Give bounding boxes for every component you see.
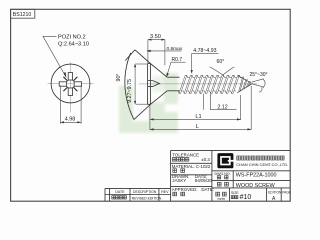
pozidriv recess bottom wing	[68, 88, 72, 95]
dim L dimension line	[150, 128, 251, 130]
company chinese name	[237, 156, 284, 160]
svg-text:BS1210: BS1210	[13, 12, 32, 18]
side view axis centerline	[139, 83, 258, 85]
svg-text:DATE: DATE	[115, 190, 125, 194]
angle vee left leg	[125, 50, 135, 61]
svg-text:9.27~9.75: 9.27~9.75	[127, 79, 133, 103]
svg-text:3.50: 3.50	[150, 34, 161, 40]
unit chinese label	[216, 192, 226, 196]
svg-text:JASKY: JASKY	[172, 178, 186, 183]
svg-text:Q:2.64~3.10: Q:2.64~3.10	[58, 42, 89, 48]
dim L1 dimension line	[150, 118, 241, 120]
svg-text:0.8max: 0.8max	[167, 46, 183, 52]
dim 4.98 arrows	[60, 121, 64, 123]
dim 3.50 dimension line	[148, 39, 165, 41]
part-name chinese label	[217, 182, 228, 186]
size chinese label	[231, 196, 238, 199]
svg-text:POZI NO.2: POZI NO.2	[58, 35, 86, 41]
svg-text:WOOD SCREW: WOOD SCREW	[236, 183, 276, 189]
svg-text:2.12: 2.12	[218, 104, 228, 110]
company logo	[217, 153, 233, 168]
screw head outline circle (top view)	[51, 64, 90, 103]
svg-text:APPROVED:: APPROVED:	[172, 187, 198, 192]
svg-text:25°~30°: 25°~30°	[250, 72, 268, 78]
dim 3.50 arrows	[148, 39, 152, 41]
BS1210 standard box	[11, 9, 35, 18]
title block top line	[171, 149, 291, 151]
head rim bottom edge	[148, 103, 151, 105]
title block row lines left column	[171, 162, 212, 164]
head top flank with extension	[135, 50, 167, 77]
approved chinese label	[173, 192, 185, 196]
label column divider	[232, 171, 234, 188]
head rim top edge	[148, 63, 151, 65]
svg-text:L1: L1	[195, 114, 201, 120]
dim 2.12 pitch lines	[202, 94, 204, 110]
leader arrowhead	[64, 72, 67, 78]
leader line to recess	[43, 36, 66, 76]
head bottom flank with extension	[134, 91, 167, 120]
svg-text:94/05/20: 94/05/20	[195, 178, 213, 183]
dim 3.50 extension lines	[147, 40, 149, 63]
revision chinese label	[112, 196, 127, 199]
dim L1 extension lines	[149, 106, 151, 130]
shank top line	[167, 76, 179, 78]
svg-text:MATERIAL: C-1022: MATERIAL: C-1022	[172, 164, 211, 169]
dim 4.98 dimension line	[60, 121, 81, 123]
svg-text:PAGE: PAGE	[282, 190, 291, 194]
revision table lines	[105, 187, 171, 189]
svg-text:SIZE: SIZE	[231, 191, 239, 195]
dim 0.8max leader	[149, 50, 182, 52]
tolerance chinese label	[172, 158, 189, 162]
head flat face	[147, 64, 149, 105]
svg-text:#10: #10	[240, 194, 252, 201]
dim 9.27~9.75 extension ticks	[136, 63, 147, 65]
pozidriv recess top wing	[68, 73, 72, 80]
title block left edge	[170, 150, 172, 201]
pozidriv recess center circle	[66, 80, 75, 89]
svg-text:4.78~4.93: 4.78~4.93	[193, 48, 216, 54]
svg-text:m/m: m/m	[218, 197, 225, 201]
svg-text:REVISED EDITION: REVISED EDITION	[132, 196, 162, 200]
green watermark logo	[119, 73, 178, 133]
svg-text:DESCRIPTION: DESCRIPTION	[133, 190, 157, 194]
pozidriv recess left wing	[59, 82, 66, 86]
dim 4.98 extension lines	[59, 86, 61, 124]
svg-text:±0.3: ±0.3	[201, 157, 210, 162]
top view horizontal centerline	[48, 83, 94, 85]
material chinese label	[173, 169, 185, 173]
shank bottom line	[167, 90, 179, 92]
right column row lines	[212, 170, 290, 172]
head rim line	[149, 64, 151, 105]
pozidriv diagonal tick marks	[63, 77, 77, 91]
drawing frame border	[11, 9, 291, 201]
svg-text:EDITION: EDITION	[268, 190, 282, 194]
recess section profile	[148, 81, 160, 87]
90 degree arc	[125, 53, 134, 120]
dim L extension line at tip	[250, 86, 252, 130]
dim 4.78~4.93 leader	[192, 52, 219, 54]
bottom row cells	[229, 188, 231, 201]
svg-text:CHAN CHIN CEMT.CO.,LTD.: CHAN CHIN CEMT.CO.,LTD.	[236, 162, 288, 167]
dim 9.27~9.75 dimension line	[134, 64, 136, 105]
svg-text:WS-FP22A-1000: WS-FP22A-1000	[236, 172, 277, 178]
svg-text:90°: 90°	[116, 73, 122, 81]
thread crests	[178, 75, 253, 93]
title block divider	[211, 150, 213, 201]
top view vertical centerline	[69, 63, 71, 113]
svg-text:60°: 60°	[217, 59, 225, 65]
svg-text:REV: REV	[161, 190, 169, 194]
svg-text:TOLERANCE: TOLERANCE	[172, 152, 199, 157]
svg-text:4.98: 4.98	[65, 116, 76, 122]
dwg-no chinese label	[217, 176, 228, 179]
pozidriv recess right wing	[74, 82, 81, 86]
